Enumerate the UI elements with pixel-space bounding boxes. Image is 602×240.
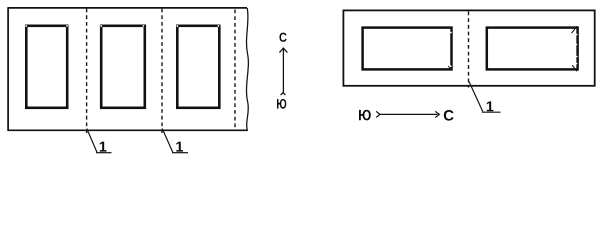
window opening W4 bbox=[363, 28, 452, 70]
mitre tick at W5 top-right corner bbox=[572, 26, 577, 33]
window opening W2 bbox=[101, 26, 145, 108]
right wall outline (plan strip) bbox=[343, 10, 594, 85]
leader line to label 1 (right diagram) bbox=[469, 82, 483, 112]
scan notches on left windows corners bbox=[25, 25, 219, 27]
label 1 (first section mark) bbox=[96, 142, 112, 153]
window opening W1 bbox=[26, 26, 67, 108]
mitre tick at W5 bottom-right corner bbox=[572, 65, 577, 71]
section line (dashed, right diagram) bbox=[468, 12, 470, 88]
left wall outline (south facade) bbox=[8, 7, 247, 131]
window opening W5 bbox=[487, 28, 578, 70]
label 1 (right diagram) bbox=[482, 101, 501, 112]
label 1 (second section mark) bbox=[172, 142, 188, 153]
leader line to first label 1 bbox=[87, 129, 97, 153]
direction arrow Yu to C bbox=[376, 111, 439, 117]
break (wavy) right edge of left wall bbox=[246, 8, 248, 131]
mitre tick at W4 bottom-right corner bbox=[448, 66, 451, 70]
direction letter C (north, right end) bbox=[444, 110, 454, 121]
direction letter Yu (south, left end) bbox=[359, 110, 371, 121]
section line 3 (dashed) bbox=[234, 10, 236, 131]
leader line to second label 1 bbox=[162, 129, 173, 153]
compass letter Yu (south) bbox=[277, 99, 286, 109]
section line 2 (dashed) bbox=[161, 9, 163, 134]
scan specks in right-diagram window borders bbox=[450, 32, 578, 67]
section line 1 (dashed) bbox=[86, 9, 88, 134]
compass arrow (pointing north/up) bbox=[279, 48, 287, 95]
compass letter C (north) bbox=[279, 33, 286, 42]
window opening W3 bbox=[177, 26, 219, 108]
